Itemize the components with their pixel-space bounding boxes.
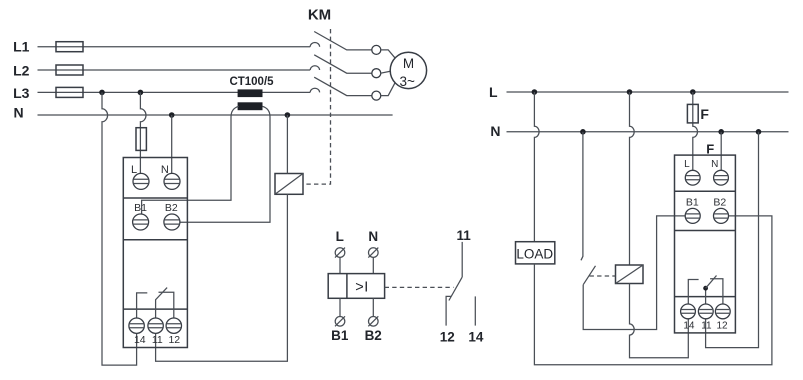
wire L right (507, 91, 789, 93)
reset switch blade (583, 266, 595, 285)
output contact: NC stub to 12 (159, 292, 174, 318)
contactor pole 2 terminal circle (372, 69, 381, 78)
screw terminal 11 right (698, 304, 713, 319)
svg-text:LOAD: LOAD (516, 246, 553, 261)
wire pole1 to motor (381, 50, 395, 58)
svg-text:B2: B2 (713, 196, 726, 208)
junction dot on blade (703, 286, 708, 291)
screw terminal N (164, 173, 180, 189)
wire 11 to N (706, 132, 759, 348)
wire L2 (38, 69, 311, 71)
screw terminal L right (685, 170, 700, 185)
wire pole2 to motor (381, 71, 391, 73)
wire coil to terminal 14 (hop over B1 wire) (630, 284, 689, 358)
svg-text:B1: B1 (134, 202, 147, 214)
svg-text:B1: B1 (331, 328, 349, 343)
svg-text:F: F (706, 141, 714, 156)
svg-text:L2: L2 (13, 62, 30, 78)
dashed linkage to contact (385, 286, 454, 288)
relay coil right (616, 265, 644, 284)
wire N right (507, 131, 789, 133)
contactor pole 3 terminal circle (372, 91, 381, 100)
wire N to box (372, 257, 374, 273)
svg-text:L: L (336, 229, 344, 244)
wire coil to terminal 11 (156, 194, 288, 361)
output contact: NO stub to 14 (137, 293, 148, 318)
divider 1 (123, 197, 187, 199)
screw terminal 11 (148, 318, 163, 333)
CT secondary bar (238, 102, 263, 110)
svg-text:L: L (131, 164, 137, 176)
svg-text:N: N (368, 229, 378, 244)
terminal symbol B2 (368, 316, 378, 326)
wire L to fuse (693, 92, 698, 170)
fuse F1 vertical (136, 128, 146, 151)
screw terminal 12 right (715, 304, 730, 319)
node N-a (169, 112, 175, 118)
wire L1 (38, 46, 311, 48)
divider 3 (123, 308, 187, 310)
screw terminal B1 right (685, 208, 700, 223)
wire switch to B1 (583, 216, 685, 330)
dashed linkage coil-switch (590, 275, 616, 277)
wire N to terminal N (720, 132, 722, 171)
wire L3 (38, 91, 311, 93)
svg-text:B2: B2 (365, 328, 382, 343)
contactor pole 1 blade (314, 32, 372, 50)
wire L to coil (hop over N) (630, 92, 635, 265)
fuse F right (687, 104, 698, 123)
svg-text:3~: 3~ (399, 74, 415, 89)
screw terminal B2 right (714, 208, 729, 223)
node N-11 (756, 129, 762, 135)
node L-fuse (690, 89, 696, 95)
output contact r: NC stub 12 (710, 279, 723, 305)
wire L3 to terminal 14 (hop over N) (102, 92, 137, 365)
wire L to box (339, 257, 341, 273)
contact NC stub 12 (446, 296, 451, 325)
LOAD box (516, 242, 555, 264)
divider 2 (123, 239, 187, 241)
contactor pole 3 blade (314, 77, 372, 95)
terminal symbol B1 (335, 316, 345, 326)
wire CT secondary to B2 (180, 106, 270, 222)
wire N to coil (286, 115, 288, 174)
wire L to LOAD (hop over N) (534, 92, 539, 242)
node L-load (532, 89, 538, 95)
node N-b (285, 112, 291, 118)
contact blade (449, 277, 462, 300)
motor M1 circle (390, 52, 426, 88)
contact NO stub 14 (474, 296, 476, 325)
svg-text:12: 12 (168, 334, 180, 346)
output contact r: common 11 (705, 288, 707, 304)
svg-text:11: 11 (701, 321, 712, 332)
svg-text:L: L (489, 84, 498, 100)
svg-text:14: 14 (683, 321, 695, 332)
contactor pole 2 blade (314, 55, 372, 73)
output contact r: blade (706, 276, 717, 289)
svg-text:12: 12 (440, 330, 455, 345)
svg-text:N: N (13, 105, 23, 121)
wire box to B2 (372, 298, 374, 316)
svg-text:>I: >I (355, 280, 369, 296)
reset switch fixed wire from N (581, 132, 583, 260)
fuse on L3 (56, 87, 83, 97)
wire L3 to fuse F1 (hop over N) (140, 92, 146, 173)
wire CT secondary to B1 (142, 106, 239, 214)
svg-text:L1: L1 (13, 39, 30, 55)
svg-text:L3: L3 (13, 85, 30, 101)
wire N (38, 114, 393, 116)
svg-text:F: F (700, 106, 709, 122)
divider r3 (675, 296, 736, 298)
device box 1 (123, 158, 187, 348)
svg-text:B2: B2 (165, 202, 178, 214)
svg-text:14: 14 (134, 334, 146, 346)
wire N to terminal N (171, 115, 173, 174)
screw terminal B2 (164, 214, 180, 230)
wire box to B1 (339, 298, 341, 316)
device box 2 (675, 155, 736, 333)
contactor pole 1 fixed contact arc (310, 43, 319, 47)
contactor pole 1 terminal circle (372, 45, 381, 54)
svg-text:B1: B1 (686, 196, 699, 208)
node L-coil (627, 89, 633, 95)
contact wire 11 (461, 242, 463, 277)
screw terminal N right (714, 170, 729, 185)
node N-term (718, 129, 724, 135)
node L3-b (138, 90, 144, 96)
fuse on L2 (56, 65, 83, 75)
svg-text:11: 11 (152, 334, 163, 346)
screw terminal B1 (133, 214, 149, 230)
svg-text:L: L (684, 159, 690, 170)
screw terminal 14 right (681, 304, 696, 319)
wire pole3 to motor (381, 82, 395, 95)
screw terminal 12 (166, 318, 181, 333)
contactor pole 2 fixed contact arc (310, 66, 319, 70)
screw terminal L (133, 173, 149, 189)
svg-text:14: 14 (468, 330, 484, 345)
svg-text:M: M (403, 56, 414, 71)
svg-text:N: N (711, 159, 718, 170)
screw terminal 14 (129, 318, 144, 333)
node N-switch (580, 129, 586, 135)
terminal symbol L (335, 248, 345, 258)
divider r1 (675, 190, 736, 192)
terminal symbol N (368, 248, 378, 258)
contactor pole 3 fixed contact arc (310, 88, 319, 92)
svg-text:KM: KM (308, 7, 331, 24)
wire LOAD to B2 (534, 216, 772, 365)
node L3-a (99, 90, 105, 96)
svg-text:CT100/5: CT100/5 (229, 76, 274, 88)
relay coil KM (275, 174, 303, 195)
CT primary bar (238, 89, 263, 97)
fuse on L1 (56, 42, 83, 52)
output contact: common 11 with blade (156, 288, 168, 318)
divider r2 (675, 230, 736, 232)
svg-text:N: N (490, 123, 500, 139)
svg-text:11: 11 (456, 228, 471, 243)
relay body box (328, 274, 384, 299)
KM dashed linkage (303, 29, 331, 184)
output contact r: NO stub 14 (688, 280, 698, 305)
svg-text:12: 12 (716, 321, 728, 332)
